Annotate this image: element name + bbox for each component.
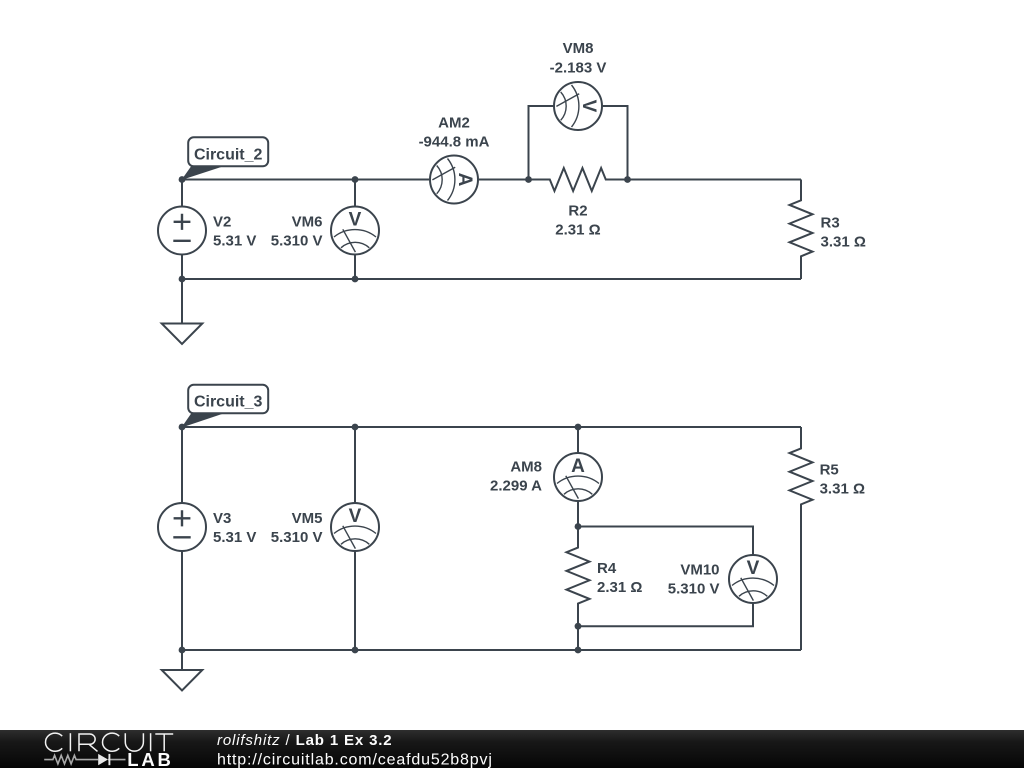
wire bottom rail circuit2 [182,278,801,280]
svg-text:R3: R3 [821,215,840,232]
svg-text:R2: R2 [568,203,587,220]
ground circuit3 [162,670,203,691]
junction node VM6 bottom rail [352,276,359,283]
junction node R2 left / VM8 [525,176,532,183]
resistor R3 [790,180,813,279]
svg-text:R5: R5 [820,461,839,478]
junction node R4 top / VM10 [575,523,582,530]
junction node VM5 top rail [352,424,359,431]
wire R3 bottom stub [800,277,802,279]
labels circuit3 [213,459,865,598]
wire VM8 left loop [529,106,555,180]
svg-text:Circuit_3: Circuit_3 [194,394,263,411]
svg-text:A: A [454,173,475,187]
resistor R4 [567,527,590,626]
wire top rail circuit3 [182,426,801,428]
wire VM8 right loop [602,106,628,180]
svg-text:V: V [349,506,362,527]
junction node R4 bottom / VM10 [575,623,582,630]
svg-text:-944.8 mA: -944.8 mA [419,134,490,151]
svg-text:3.31 Ω: 3.31 Ω [820,480,865,497]
voltmeter VM6 [331,207,379,255]
wire VM6 leads [354,180,356,280]
wire ground stem circuit2 [181,279,183,324]
junction node R4 bottom rail [575,647,582,654]
wire VM10 bottom loop [578,603,753,626]
wire R5 tail [800,427,802,650]
svg-text:LAB: LAB [127,749,173,768]
wire bottom rail circuit3 [182,649,801,651]
ammeter AM8 [554,453,602,501]
wire V2 leads [181,180,183,280]
svg-text:5.31 V: 5.31 V [213,529,256,546]
voltmeter VM8 [554,82,602,130]
junction node R2 right / VM8 [624,176,631,183]
svg-text:AM2: AM2 [438,115,470,132]
logo diode [98,754,108,765]
svg-text:5.310 V: 5.310 V [271,232,323,249]
junction node VM6 top rail [352,176,359,183]
svg-text:-2.183 V: -2.183 V [550,60,607,77]
svg-text:5.31 V: 5.31 V [213,232,256,249]
flag label Circuit_2 [181,137,268,180]
svg-text:V2: V2 [213,213,231,230]
wire top rail circuit2 [182,179,801,181]
svg-text:R4: R4 [597,560,617,577]
wire V3 leads [181,427,183,650]
labels circuit2 [213,40,866,251]
svg-text:2.31 Ω: 2.31 Ω [597,579,642,596]
svg-text:V3: V3 [213,510,231,527]
svg-text:VM8: VM8 [563,40,594,57]
ground circuit2 [162,324,203,345]
svg-text:2.299 A: 2.299 A [490,478,542,495]
svg-text:VM10: VM10 [680,561,719,578]
junction node VM5 bottom rail [352,647,359,654]
junction node AM8 top rail [575,424,582,431]
logo squiggle resistor-diode [44,755,125,764]
ammeter AM2 [430,156,478,204]
voltmeter VM5 [331,503,379,551]
voltage source V2 [158,207,206,255]
svg-text:3.31 Ω: 3.31 Ω [821,234,866,251]
svg-text:V: V [349,210,362,231]
svg-text:5.310 V: 5.310 V [271,529,323,546]
wire VM5 leads [354,427,356,650]
voltmeter VM10 [729,555,777,603]
svg-text:Circuit_2: Circuit_2 [194,146,263,163]
junction node V2 bottom rail [179,276,186,283]
resistor R5 [790,428,813,527]
junction node V2 top rail [179,176,186,183]
svg-text:http://circuitlab.com/ceafdu52: http://circuitlab.com/ceafdu52b8pvj [217,751,493,768]
svg-text:rolifshitz / Lab 1 Ex 3.2: rolifshitz / Lab 1 Ex 3.2 [217,732,393,749]
flag label Circuit_3 [181,385,268,428]
svg-text:VM5: VM5 [292,510,323,527]
svg-text:VM6: VM6 [292,213,323,230]
junction node V3 bottom rail [179,647,186,654]
svg-text:V: V [578,100,599,113]
svg-text:A: A [571,456,585,477]
logo CIRCUIT wordmark [46,733,174,751]
svg-text:5.310 V: 5.310 V [668,580,720,597]
junction node V3 top rail [179,424,186,431]
wire AM8 leads [577,427,579,527]
wire VM10 top loop [578,527,753,556]
svg-text:2.31 Ω: 2.31 Ω [555,222,600,239]
wire ground stem circuit3 [181,650,183,670]
svg-text:V: V [747,558,760,579]
voltage source V3 [158,503,206,551]
resistor R2 [529,168,628,191]
wire R4 bottom stub [577,626,579,650]
svg-text:AM8: AM8 [510,459,542,476]
